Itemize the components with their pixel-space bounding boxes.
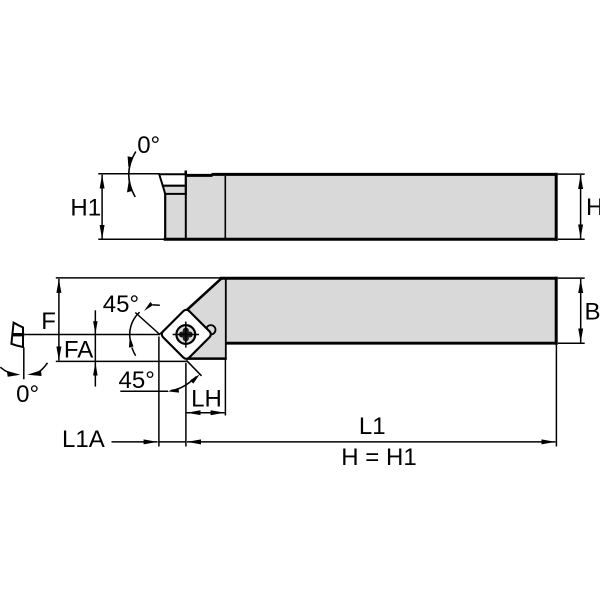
lower-left 0-degree: right arrowhead xyxy=(27,370,41,376)
upper 45-degree: upper arrowhead xyxy=(144,302,153,311)
plan view: shank bottom edge xyxy=(225,342,558,345)
B bottom extension line xyxy=(558,342,585,344)
upper 45-degree: lower arrowhead xyxy=(129,336,134,347)
plan view: shank right edge xyxy=(555,277,558,345)
upper 45-degree: leader dash xyxy=(153,304,160,306)
plan top extension line to F xyxy=(56,277,221,279)
svg-text:0°: 0° xyxy=(137,132,160,159)
lower 45-degree: diagonal extension line xyxy=(186,360,201,376)
side view: shank bottom edge xyxy=(164,238,558,241)
screw: crosshair horizontal xyxy=(173,334,200,336)
svg-text:F: F xyxy=(41,308,56,335)
FA upper arrowhead (pointing down) xyxy=(93,321,98,334)
side view: insert tip nub xyxy=(185,171,188,175)
H dimension line with arrows xyxy=(580,175,582,238)
0-degree upper arrowhead xyxy=(128,156,133,167)
lower 45-degree: label underline xyxy=(120,390,168,392)
plan view: head/shank joint vertical line xyxy=(225,278,227,358)
upper 45-degree: arc xyxy=(130,312,140,344)
side view: shank top edge xyxy=(212,173,558,176)
screw: crosshair vertical xyxy=(185,322,187,348)
0-degree angle indicator (side view) arc xyxy=(129,152,136,198)
svg-text:H1: H1 xyxy=(70,194,101,221)
lower 45-degree: left arrowhead xyxy=(168,388,179,393)
end view: vertical extension line down xyxy=(23,347,25,379)
side view: bar left edge xyxy=(164,194,166,240)
tip corner extension line xyxy=(56,360,187,362)
side view: head/shank joint line xyxy=(224,176,226,238)
lower-left 0-degree: left arrowhead xyxy=(7,371,21,377)
L1 dimension line with arrows xyxy=(187,441,555,443)
B top extension line xyxy=(558,277,585,279)
B dimension line with arrows xyxy=(580,279,582,342)
H right top extension line xyxy=(558,173,585,175)
svg-text:L1: L1 xyxy=(359,413,386,440)
plan view: diagonal cutting edge xyxy=(160,278,221,334)
svg-text:H: H xyxy=(586,194,600,221)
svg-text:45°: 45° xyxy=(103,291,139,318)
side view: insert side profile (gray trapezoid) xyxy=(163,186,186,194)
H right bottom extension line xyxy=(558,238,585,240)
svg-text:H = H1: H = H1 xyxy=(341,444,416,471)
lower 45-degree: arc with arrows xyxy=(171,377,197,391)
F dimension line with arrows xyxy=(58,279,60,361)
side view: shank body fill xyxy=(165,174,556,239)
LH left extension line xyxy=(158,337,160,447)
FA dimension line xyxy=(94,310,96,386)
H1 top extension line xyxy=(98,173,159,175)
side view: shank right edge xyxy=(555,173,558,241)
FA lower arrowhead (pointing up) xyxy=(93,362,98,376)
lower-left 0-degree: left tail curve xyxy=(0,367,8,372)
screw: clover lobes xyxy=(183,328,189,334)
lower 45-degree: right arrowhead xyxy=(190,374,200,383)
svg-text:LH: LH xyxy=(191,385,222,412)
plan view: shank top edge xyxy=(220,277,558,280)
svg-text:B: B xyxy=(585,299,600,326)
LH dimension line with arrows xyxy=(187,412,225,414)
LH right extension line (tip corner) xyxy=(185,363,187,447)
L1 right extension line xyxy=(555,345,557,447)
plan view: body fill polygon xyxy=(186,278,556,360)
L1A-L1 connector line xyxy=(158,441,186,443)
end view: insert front profile shape xyxy=(11,323,23,347)
svg-text:0°: 0° xyxy=(16,381,39,408)
plan view: head bottom edge xyxy=(187,357,227,360)
lower-left 0-degree: right tail curve xyxy=(40,363,48,372)
side view: insert right vertical edge xyxy=(185,171,187,239)
L1A leader with arrow xyxy=(112,441,158,443)
insert: square with rounded corners rotated 45 xyxy=(160,308,212,360)
svg-text:FA: FA xyxy=(64,336,93,363)
upper 45-degree: diagonal extension line xyxy=(135,313,160,335)
upper 45-degree: lower arrow tail xyxy=(132,348,136,356)
H1 bottom extension line xyxy=(98,238,166,240)
tip centerline xyxy=(25,334,161,336)
0-degree lower arrowhead xyxy=(127,181,132,192)
side view: head top edge xyxy=(187,174,213,177)
screw: outer circle xyxy=(176,325,195,344)
plan view: shim circle behind insert xyxy=(206,325,215,334)
LH far right extension line xyxy=(224,360,226,416)
svg-text:45°: 45° xyxy=(119,367,155,394)
side view: clamp pocket (white trapezoid) xyxy=(159,174,186,186)
end view: thick middle bar xyxy=(12,333,25,336)
H1 dimension line with arrows xyxy=(101,175,103,239)
svg-text:L1A: L1A xyxy=(62,426,105,453)
